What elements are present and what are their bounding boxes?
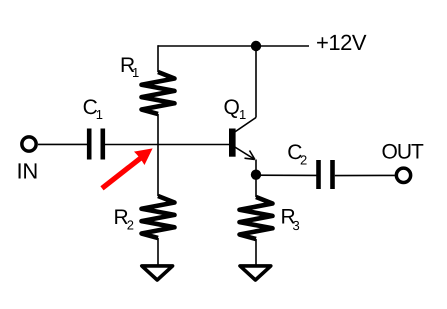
svg-text:2: 2 bbox=[127, 218, 134, 233]
label C2 bbox=[287, 141, 307, 167]
wire C2 to OUT bbox=[335, 174, 395, 176]
svg-text:2: 2 bbox=[300, 152, 307, 167]
wire emitter to C2 bbox=[256, 174, 317, 176]
wire collector bbox=[255, 46, 257, 118]
svg-text:1: 1 bbox=[239, 107, 246, 122]
resistor R2 bbox=[142, 196, 175, 238]
svg-text:3: 3 bbox=[293, 218, 300, 233]
wire top rail bbox=[158, 45, 309, 47]
wire R3 bottom lead bbox=[255, 239, 257, 266]
label R3 bbox=[281, 206, 300, 233]
label Q1 bbox=[224, 96, 247, 122]
ground below R2 bbox=[142, 266, 173, 280]
terminal IN bbox=[22, 137, 36, 151]
node collector junction bbox=[251, 41, 261, 51]
node emitter junction bbox=[251, 170, 261, 180]
resistor R3 bbox=[240, 197, 273, 239]
svg-text:IN: IN bbox=[17, 159, 39, 184]
terminal OUT bbox=[396, 168, 410, 182]
svg-text:1: 1 bbox=[96, 107, 103, 122]
wire base column bbox=[157, 114, 159, 196]
wire R1 top lead bbox=[157, 45, 159, 72]
svg-text:1: 1 bbox=[132, 65, 139, 80]
svg-text:+12V: +12V bbox=[316, 30, 367, 55]
ground below R3 bbox=[240, 266, 271, 280]
wire base bbox=[105, 144, 229, 146]
label C1 bbox=[83, 96, 103, 122]
label R1 bbox=[120, 54, 139, 80]
svg-text:Q: Q bbox=[224, 96, 240, 119]
capacitor C1 bbox=[89, 129, 103, 160]
wire emitter bbox=[255, 160, 257, 198]
capacitor C2 bbox=[319, 160, 333, 189]
transistor Q1 bbox=[232, 118, 256, 160]
label R2 bbox=[114, 206, 134, 232]
wire IN to C1 bbox=[38, 143, 87, 145]
wire R2 bottom lead bbox=[157, 238, 159, 266]
svg-text:OUT: OUT bbox=[382, 141, 425, 164]
resistor R1 bbox=[142, 72, 175, 114]
annotation red arrow bbox=[102, 148, 153, 188]
